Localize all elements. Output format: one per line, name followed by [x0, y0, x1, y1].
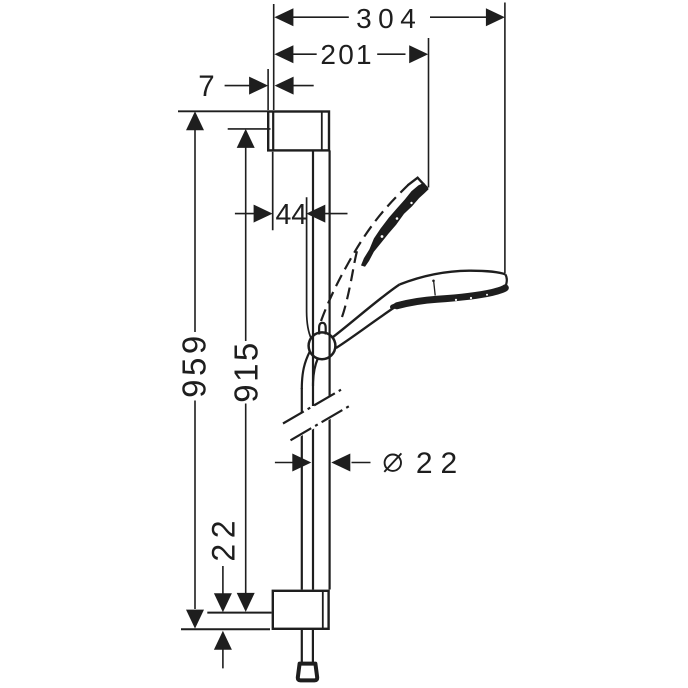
solid handshower head top outline — [400, 271, 506, 285]
ext line wall-left top — [267, 69, 269, 110]
extension line for 44 (hose axis) — [307, 197, 312, 338]
svg-text:201: 201 — [320, 39, 373, 70]
svg-text:44: 44 — [275, 199, 307, 231]
dashed handshower right outline — [342, 251, 357, 317]
svg-text:22: 22 — [416, 447, 465, 480]
ext line 915 top — [228, 128, 271, 130]
ext line below bracket (44 left) — [272, 152, 274, 231]
bottom wall bracket — [273, 591, 329, 629]
dimension 7 — [198, 70, 314, 103]
slider knob — [319, 323, 326, 335]
svg-text:959: 959 — [175, 332, 212, 398]
dashed handshower spray face band — [362, 183, 429, 266]
ext line bottom bracket bottom extended — [181, 628, 270, 630]
svg-text:22: 22 — [206, 515, 242, 562]
ext line wall-inner top (304/201/7) — [273, 4, 275, 110]
dimension 201 — [274, 39, 428, 70]
ext line 959 top (bracket top extended) — [178, 110, 267, 112]
dimension 304 — [274, 3, 505, 34]
hose below bottom bracket — [302, 630, 313, 662]
dimension 959 vertical — [175, 111, 212, 628]
solid handshower handle bottom outline — [336, 306, 396, 348]
solid handshower handle top outline — [333, 285, 400, 338]
ext line 201 right — [428, 38, 430, 188]
break symbol lower diagonal — [291, 406, 351, 441]
solid handshower right cap — [505, 274, 507, 288]
hose curve from slider ball — [302, 352, 310, 390]
dimension 44 — [235, 199, 348, 231]
break symbol upper diagonal — [283, 390, 341, 424]
hose end cone — [298, 664, 317, 681]
solid handshower spray face band — [397, 288, 505, 306]
svg-text:7: 7 — [198, 70, 214, 103]
top wall bracket — [268, 112, 329, 151]
svg-text:915: 915 — [228, 340, 265, 403]
dashed handshower top cap — [408, 178, 428, 189]
rail right line — [329, 150, 331, 589]
dimension 22 bottom vertical — [206, 515, 242, 668]
ext line 304 right — [504, 3, 506, 274]
svg-text:304: 304 — [356, 3, 422, 34]
break symbol white band — [282, 391, 351, 441]
small tick on head face — [432, 280, 435, 283]
dimension 915 vertical — [228, 129, 265, 612]
rail left line — [312, 150, 314, 589]
hose vertical left — [301, 388, 303, 590]
dimension diameter 22 — [275, 447, 465, 480]
ext line bottom hole axis — [207, 612, 271, 614]
dashed handshower left outline (upper position) — [321, 185, 408, 321]
slider ball — [309, 332, 336, 359]
